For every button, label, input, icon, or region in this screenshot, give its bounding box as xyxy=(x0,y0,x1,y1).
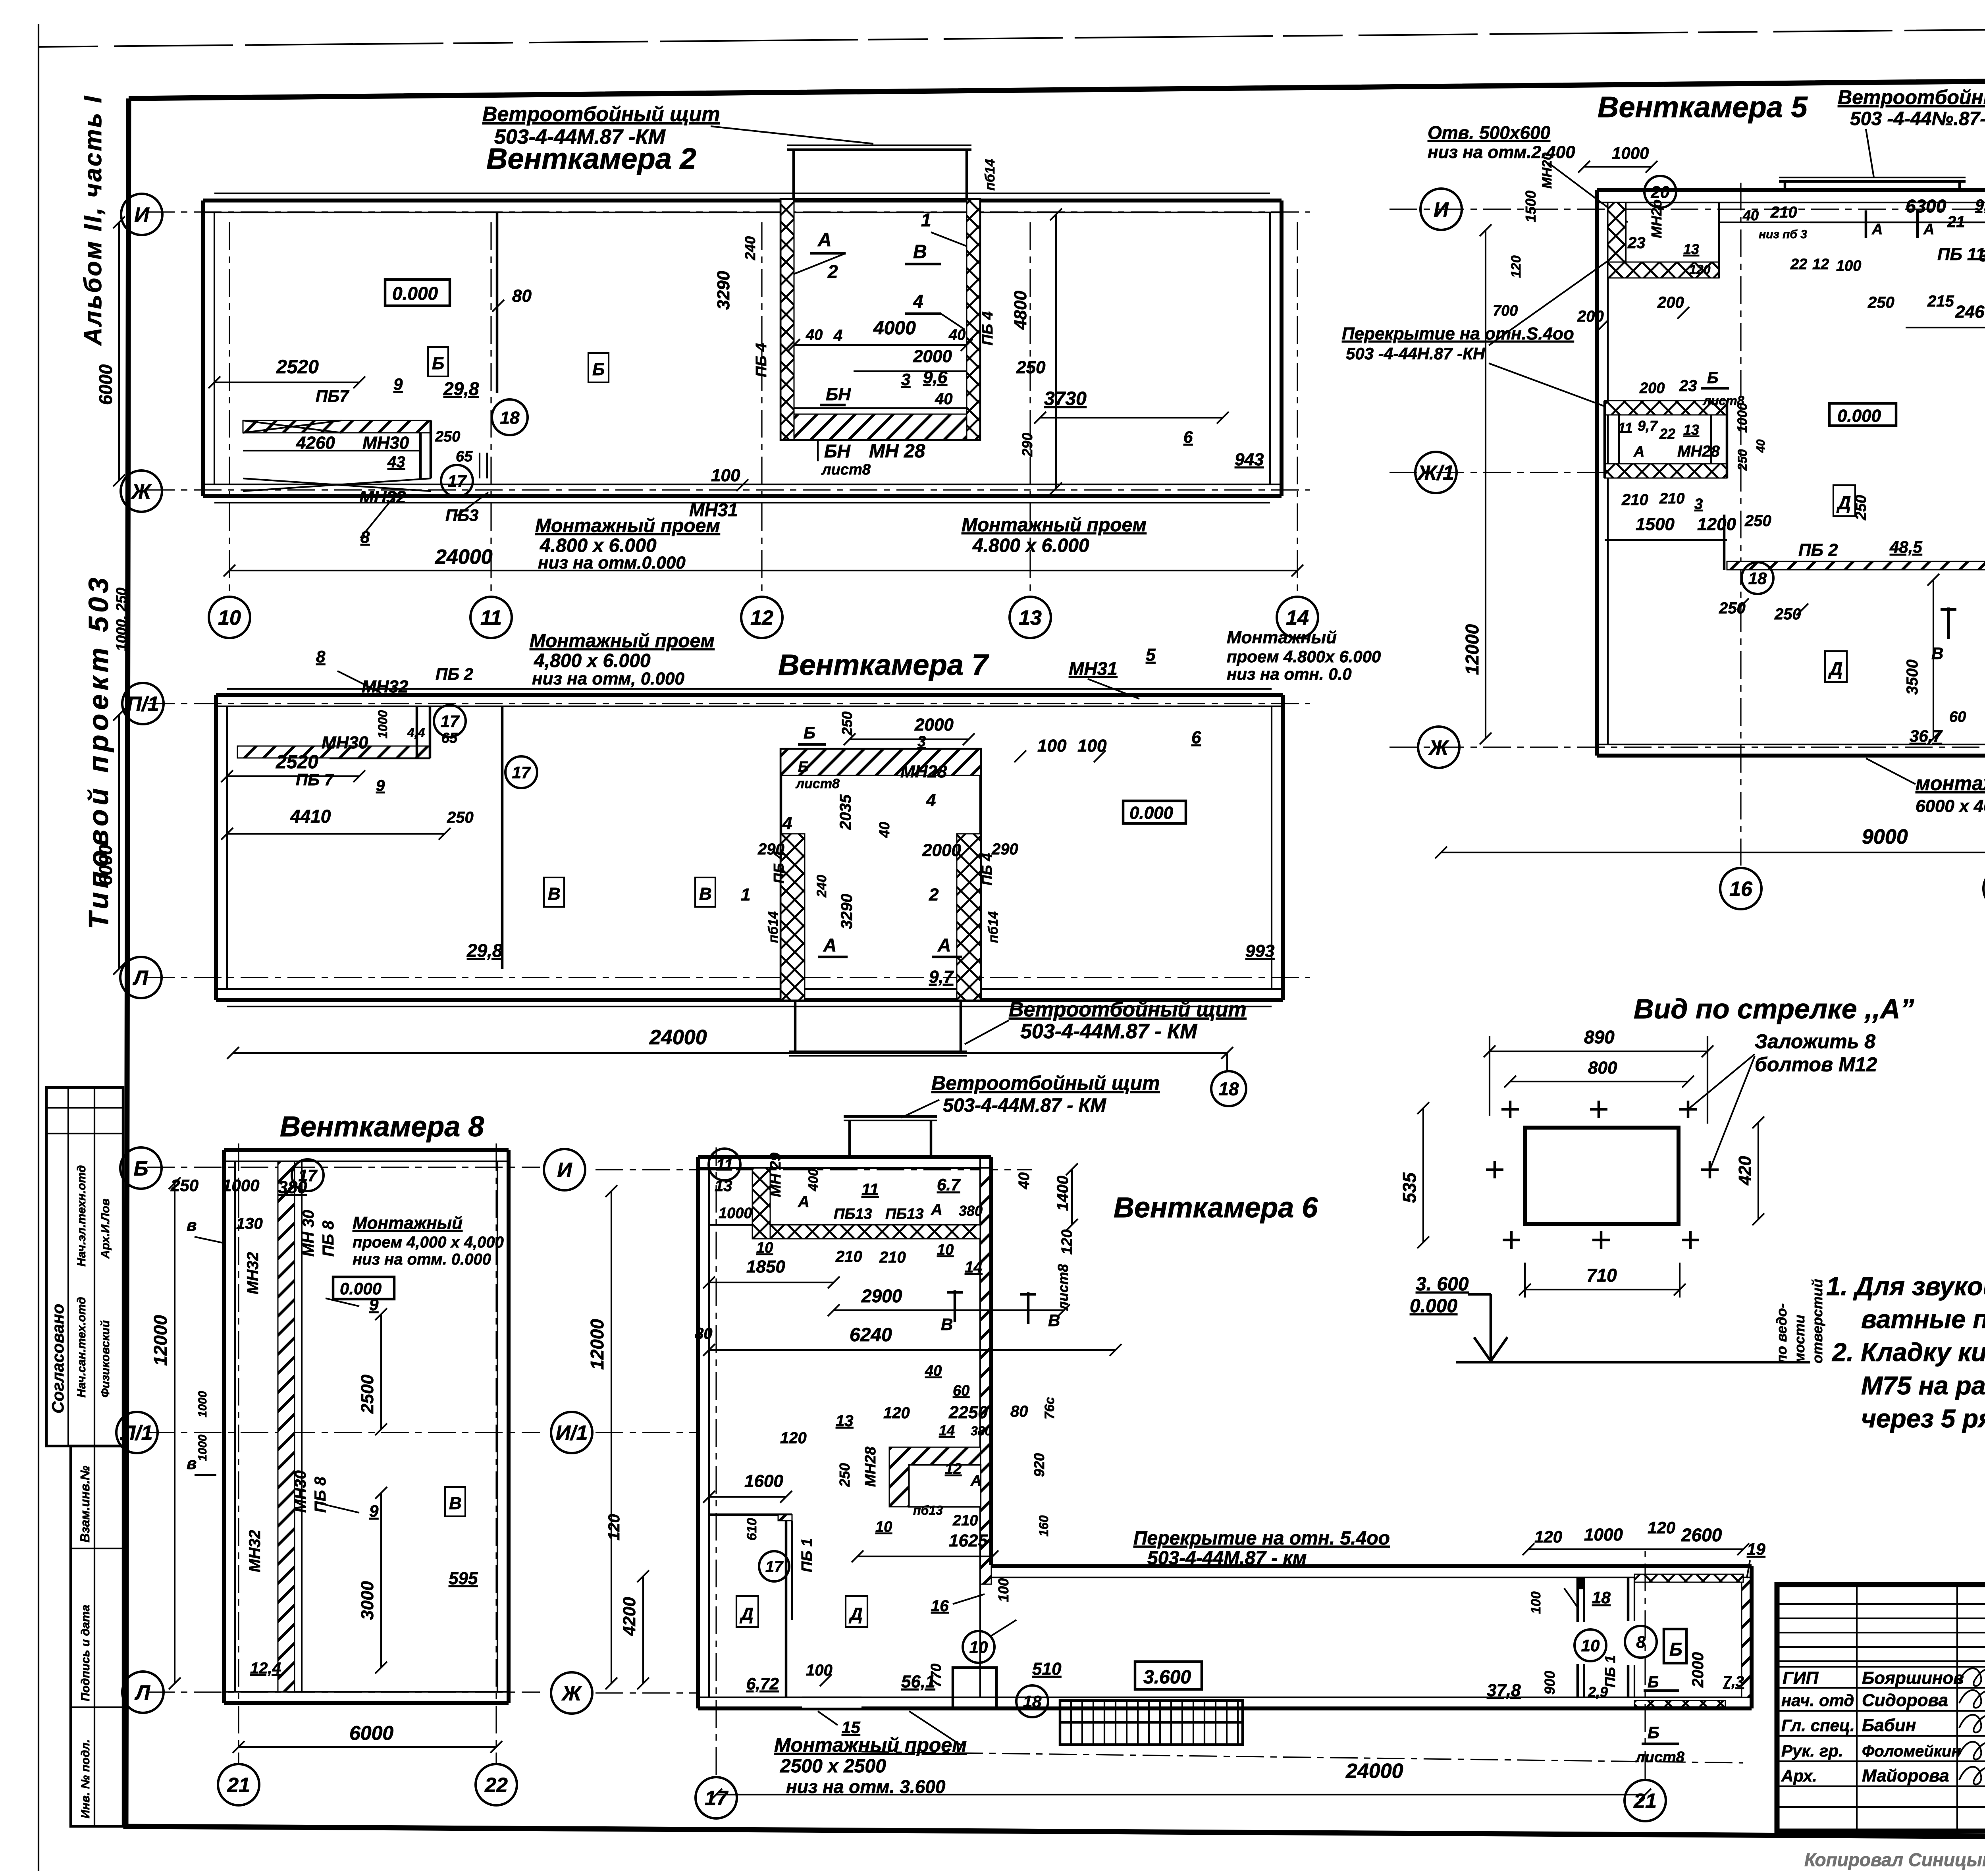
svg-text:250: 250 xyxy=(435,428,460,445)
svg-text:Д: Д xyxy=(1828,658,1842,679)
svg-text:Л: Л xyxy=(132,967,148,990)
svg-text:4,800 х 6.000: 4,800 х 6.000 xyxy=(534,650,651,671)
svg-text:0.000: 0.000 xyxy=(392,283,438,304)
svg-text:1: 1 xyxy=(921,210,931,230)
svg-text:МН30: МН30 xyxy=(292,1470,309,1513)
vk6 24000 dim xyxy=(716,1794,1645,1795)
svg-text:Бабин: Бабин xyxy=(1862,1716,1916,1735)
svg-text:ПБ 4: ПБ 4 xyxy=(753,343,770,377)
svg-text:2. Кладку кирпичных перегоро: 2. Кладку кирпичных перегородок вести из… xyxy=(1831,1338,1985,1367)
svg-text:120: 120 xyxy=(1689,262,1711,277)
vk2 24000 dim xyxy=(229,570,1297,571)
svg-text:37,8: 37,8 xyxy=(1487,1681,1521,1700)
svg-text:250: 250 xyxy=(1867,294,1894,311)
svg-text:1600: 1600 xyxy=(744,1471,783,1491)
svg-text:отверстий: отверстий xyxy=(1809,1279,1825,1363)
svg-text:ПБ 4: ПБ 4 xyxy=(979,311,996,345)
svg-text:6000: 6000 xyxy=(95,364,116,405)
svg-text:11: 11 xyxy=(1618,420,1632,436)
detail dim 420 xyxy=(1758,1122,1759,1219)
svg-text:12000: 12000 xyxy=(587,1319,607,1370)
svg-text:4,4: 4,4 xyxy=(407,725,425,740)
svg-text:Б: Б xyxy=(1648,1723,1659,1742)
svg-text:100: 100 xyxy=(995,1578,1012,1602)
vk8 axis lines xyxy=(147,1166,540,1168)
svg-text:120: 120 xyxy=(1648,1518,1675,1537)
svg-text:43: 43 xyxy=(387,453,405,471)
svg-text:4200: 4200 xyxy=(620,1597,639,1636)
svg-text:Сидорова: Сидорова xyxy=(1862,1691,1948,1710)
vk7 circle refs xyxy=(434,705,466,737)
svg-text:80: 80 xyxy=(512,286,532,306)
vk8 vertical axes xyxy=(238,1143,239,1763)
stamp column group 1 xyxy=(46,1087,123,1446)
svg-text:И: И xyxy=(557,1159,572,1182)
title block frame xyxy=(1777,1585,1985,1831)
svg-text:Перекрытие на отн.S.4оо: Перекрытие на отн.S.4оо xyxy=(1342,324,1574,343)
svg-text:7,3: 7,3 xyxy=(1723,1674,1744,1690)
svg-text:1000: 1000 xyxy=(719,1205,752,1222)
svg-text:6000: 6000 xyxy=(95,844,116,885)
svg-text:ПБ7: ПБ7 xyxy=(316,387,349,405)
svg-text:100: 100 xyxy=(1528,1591,1544,1614)
svg-text:8: 8 xyxy=(1636,1633,1646,1651)
svg-text:Ветроотбойный щит: Ветроотбойный щит xyxy=(931,1072,1160,1094)
svg-text:ватные плиты /ГОСТ 9573-82 ): ватные плиты /ГОСТ 9573-82 ) толщиной 60… xyxy=(1861,1305,1985,1334)
vk7 axis line P1 xyxy=(147,703,1310,704)
vk5 top-left room xyxy=(1608,202,1626,278)
svg-text:9: 9 xyxy=(393,375,403,393)
svg-text:100: 100 xyxy=(1037,736,1067,756)
svg-text:низ на отм.0.000: низ на отм.0.000 xyxy=(538,553,686,573)
svg-text:250: 250 xyxy=(1735,449,1750,471)
vk7 room letters xyxy=(544,877,564,907)
vk7 24000 dim xyxy=(233,1052,1227,1054)
svg-text:29,8: 29,8 xyxy=(466,940,503,961)
vk2 partition xyxy=(496,212,499,393)
vk7 outer walls xyxy=(216,693,1283,697)
svg-text:14: 14 xyxy=(939,1422,955,1438)
svg-text:11: 11 xyxy=(480,607,502,630)
vk2 axis line Zh1 xyxy=(147,489,1310,490)
svg-text:160: 160 xyxy=(1037,1515,1051,1537)
svg-text:ПБ 2: ПБ 2 xyxy=(1798,540,1838,560)
title block left grid xyxy=(1777,1603,1985,1605)
svg-text:210: 210 xyxy=(1621,491,1648,509)
svg-text:10: 10 xyxy=(218,607,241,630)
svg-text:215: 215 xyxy=(1927,293,1954,310)
svg-text:Подпись и дата: Подпись и дата xyxy=(79,1605,92,1701)
svg-text:23: 23 xyxy=(1627,234,1646,252)
svg-text:ПБ 2: ПБ 2 xyxy=(436,665,473,683)
sheet outer trim line left xyxy=(38,24,39,1871)
vk2 room X bracing xyxy=(243,478,431,491)
svg-text:1. Для звукоизоляции вентка: 1. Для звукоизоляции венткамер использую… xyxy=(1826,1272,1985,1301)
svg-text:13: 13 xyxy=(715,1177,732,1195)
svg-text:И/1: И/1 xyxy=(556,1422,588,1445)
detail rect xyxy=(1525,1128,1679,1224)
svg-text:мости: мости xyxy=(1791,1315,1808,1363)
svg-text:503 -4-44Н.87 -КН: 503 -4-44Н.87 -КН xyxy=(1346,344,1486,363)
svg-text:9000: 9000 xyxy=(1862,825,1908,848)
svg-text:17: 17 xyxy=(299,1166,318,1185)
svg-text:200: 200 xyxy=(1577,308,1604,325)
svg-text:10: 10 xyxy=(937,1242,954,1258)
vk7 axis circle P1 xyxy=(122,683,164,724)
svg-text:200: 200 xyxy=(1639,380,1665,397)
svg-text:503-4-44М.87 - км: 503-4-44М.87 - км xyxy=(1147,1548,1307,1569)
svg-text:1200: 1200 xyxy=(1697,515,1736,534)
svg-text:1000: 1000 xyxy=(376,710,390,738)
vk6 level box 3600 xyxy=(1135,1662,1202,1689)
vk5 circle 20 xyxy=(1644,176,1676,208)
vk5 axis circles xyxy=(1420,189,1462,230)
svg-text:2900: 2900 xyxy=(861,1286,902,1306)
vk6 B arrows xyxy=(954,1290,956,1322)
svg-text:40: 40 xyxy=(876,822,892,838)
vk5 second room xyxy=(1605,401,1727,415)
svg-text:2: 2 xyxy=(827,261,838,282)
svg-text:12,4: 12,4 xyxy=(250,1660,281,1677)
vk7 wind shield below xyxy=(794,1000,797,1052)
detail plus marks xyxy=(1501,1108,1519,1111)
vk5 outer walls xyxy=(1597,188,1985,192)
svg-text:60: 60 xyxy=(1949,709,1966,725)
vk8 12000 dim xyxy=(174,1183,175,1683)
svg-text:503-4-44М.87 - КМ: 503-4-44М.87 - КМ xyxy=(1020,1020,1198,1043)
svg-text:1: 1 xyxy=(741,885,750,904)
svg-text:10: 10 xyxy=(1581,1636,1600,1655)
svg-text:12000: 12000 xyxy=(1462,624,1482,675)
svg-text:Монтажный проем: Монтажный проем xyxy=(530,630,715,652)
svg-text:Нач.эл.техн.отд: Нач.эл.техн.отд xyxy=(75,1165,88,1267)
svg-text:Отв. 500х600: Отв. 500х600 xyxy=(1428,122,1551,143)
vk7 level mark xyxy=(1123,801,1186,823)
svg-text:1400: 1400 xyxy=(1054,1176,1072,1211)
svg-text:920: 920 xyxy=(1031,1453,1047,1477)
vk7 axis circle L xyxy=(120,957,162,998)
svg-text:Нач.сан.тех.отд: Нач.сан.тех.отд xyxy=(75,1297,88,1398)
svg-text:3730: 3730 xyxy=(1044,388,1087,409)
svg-text:40: 40 xyxy=(1742,207,1759,224)
vk6 top-left room xyxy=(709,1224,980,1226)
svg-text:Ж: Ж xyxy=(561,1682,582,1705)
vk2 vertical grid axes xyxy=(229,222,230,596)
svg-text:пб 3: пб 3 xyxy=(1783,228,1807,241)
vk7 left 6000 dim xyxy=(118,715,120,969)
svg-text:лист8: лист8 xyxy=(1055,1264,1071,1311)
svg-text:1000: 1000 xyxy=(1612,144,1649,162)
svg-text:А: А xyxy=(823,935,836,955)
svg-text:710: 710 xyxy=(1586,1265,1617,1286)
vk7 wall panel lines xyxy=(227,688,1272,690)
svg-text:пб14: пб14 xyxy=(766,911,781,943)
svg-text:3: 3 xyxy=(1694,496,1703,513)
vk2 wall panel lines xyxy=(214,193,1270,194)
svg-text:2520: 2520 xyxy=(276,357,319,378)
svg-text:120: 120 xyxy=(1534,1527,1562,1546)
svg-text:ПБ 1: ПБ 1 xyxy=(1602,1655,1618,1687)
svg-text:2460: 2460 xyxy=(1955,302,1985,322)
svg-text:В: В xyxy=(699,884,712,904)
svg-text:ГИП: ГИП xyxy=(1783,1668,1819,1688)
svg-text:ПБ 1: ПБ 1 xyxy=(799,1538,815,1572)
svg-text:80: 80 xyxy=(1010,1403,1028,1420)
vk6 vertical part walls xyxy=(698,1155,991,1159)
svg-text:9,4: 9,4 xyxy=(1975,197,1985,214)
vk6 axis dash bottom xyxy=(861,1752,1743,1763)
svg-text:Венткамера 7: Венткамера 7 xyxy=(778,648,989,681)
svg-text:6240: 6240 xyxy=(850,1325,892,1346)
svg-text:лист8: лист8 xyxy=(821,461,871,478)
vk7 small room top-left xyxy=(330,757,430,760)
vk7 axis line L xyxy=(147,977,1310,978)
svg-text:250: 250 xyxy=(1744,512,1771,530)
svg-text:16: 16 xyxy=(1729,878,1753,901)
svg-text:130: 130 xyxy=(236,1215,263,1232)
svg-text:210: 210 xyxy=(1659,490,1684,507)
svg-text:И: И xyxy=(134,204,150,227)
svg-text:Рук. гр.: Рук. гр. xyxy=(1781,1741,1843,1760)
svg-text:Майорова: Майорова xyxy=(1862,1766,1949,1785)
svg-text:через 5 рядов кладки.: через 5 рядов кладки. xyxy=(1861,1404,1985,1433)
svg-text:14: 14 xyxy=(1286,607,1309,630)
svg-text:120: 120 xyxy=(780,1429,807,1447)
detail ground line xyxy=(1456,1361,1810,1364)
svg-text:100: 100 xyxy=(1836,258,1861,274)
vk2 room letter V1 xyxy=(428,347,448,376)
svg-text:Б: Б xyxy=(134,1157,148,1180)
svg-text:943: 943 xyxy=(1235,450,1264,469)
svg-text:2250: 2250 xyxy=(948,1403,988,1422)
svg-text:БН: БН xyxy=(824,441,851,461)
svg-text:МН28: МН28 xyxy=(900,762,947,781)
vk2 room letter V2 xyxy=(588,353,609,382)
svg-text:510: 510 xyxy=(1032,1659,1062,1679)
svg-text:3.600: 3.600 xyxy=(1143,1667,1191,1688)
svg-text:80: 80 xyxy=(695,1325,713,1342)
svg-text:А: А xyxy=(798,1193,809,1211)
vk2 bottom axis circles xyxy=(209,597,250,638)
svg-text:3500: 3500 xyxy=(1904,659,1921,695)
svg-text:МН20: МН20 xyxy=(1540,152,1555,189)
svg-text:595: 595 xyxy=(449,1569,478,1588)
svg-text:МН2о: МН2о xyxy=(1648,199,1665,238)
svg-text:по ведо-: по ведо- xyxy=(1773,1303,1790,1363)
vk6 inner partition left xyxy=(709,1514,792,1516)
svg-text:1625: 1625 xyxy=(949,1531,988,1550)
detail dim 535 xyxy=(1422,1108,1424,1242)
svg-text:2000: 2000 xyxy=(914,715,954,735)
svg-text:Б: Б xyxy=(1669,1639,1682,1660)
svg-text:380: 380 xyxy=(959,1203,983,1219)
svg-text:6: 6 xyxy=(1183,428,1193,446)
svg-text:2000: 2000 xyxy=(1689,1652,1707,1688)
svg-text:В: В xyxy=(1048,1311,1060,1330)
vk6 bottom opening 15 xyxy=(802,1697,861,1708)
svg-text:Б: Б xyxy=(804,723,815,742)
vk2 axis circle Zh xyxy=(121,470,162,512)
svg-text:290: 290 xyxy=(1019,433,1035,457)
vk6 12000 dim xyxy=(611,1191,612,1683)
svg-text:0.000: 0.000 xyxy=(340,1279,382,1298)
vk5 bottom circles xyxy=(1720,868,1761,909)
svg-text:6: 6 xyxy=(1191,728,1201,747)
svg-text:22: 22 xyxy=(1790,256,1807,273)
svg-text:3: 3 xyxy=(917,733,926,750)
svg-text:9,7: 9,7 xyxy=(1638,418,1658,434)
svg-text:1000: 1000 xyxy=(196,1391,209,1417)
svg-text:Перекрытие на отн. 5.4оо: Перекрытие на отн. 5.4оо xyxy=(1133,1528,1390,1549)
svg-text:250: 250 xyxy=(170,1176,198,1195)
vk8 room letter xyxy=(445,1487,465,1516)
svg-text:2000: 2000 xyxy=(913,347,952,366)
svg-text:250: 250 xyxy=(1016,358,1046,377)
vk8 6000 dim xyxy=(239,1746,496,1748)
vk2 axis circle I xyxy=(121,194,162,235)
svg-text:Арх.И.Лов: Арх.И.Лов xyxy=(99,1199,112,1259)
svg-text:4: 4 xyxy=(913,291,923,312)
svg-text:240: 240 xyxy=(814,875,829,898)
svg-text:1000: 1000 xyxy=(1584,1525,1623,1544)
sheet outer trim line top (dashed) xyxy=(39,25,1985,47)
svg-text:13: 13 xyxy=(836,1412,854,1430)
svg-text:1000: 1000 xyxy=(196,1434,209,1461)
svg-text:10: 10 xyxy=(875,1519,892,1535)
svg-text:Венткамера 6: Венткамера 6 xyxy=(1114,1192,1318,1224)
svg-text:М75 на растворе М50 с арми: М75 на растворе М50 с армированием 2Ф6АI xyxy=(1861,1371,1985,1400)
svg-text:13: 13 xyxy=(1019,607,1042,630)
svg-text:40: 40 xyxy=(925,1363,942,1379)
vk6 circle 10 xyxy=(963,1631,994,1663)
svg-text:Согласовано: Согласовано xyxy=(48,1304,67,1413)
vk2 left 6000 dim xyxy=(118,222,120,480)
vk6 axis lines left xyxy=(595,1169,1032,1170)
svg-text:6,72: 6,72 xyxy=(746,1674,779,1693)
svg-text:24000: 24000 xyxy=(1345,1760,1403,1783)
svg-text:низ на отн. 0.0: низ на отн. 0.0 xyxy=(1227,665,1352,683)
svg-text:Б: Б xyxy=(592,360,605,379)
svg-text:Альбом II, часть I: Альбом II, часть I xyxy=(79,94,107,346)
svg-text:1000: 1000 xyxy=(1735,403,1750,433)
svg-text:1000, 250: 1000, 250 xyxy=(113,588,129,651)
svg-text:380: 380 xyxy=(971,1424,992,1438)
svg-text:36,7: 36,7 xyxy=(1910,727,1943,745)
svg-text:610: 610 xyxy=(744,1518,759,1541)
svg-text:993: 993 xyxy=(1245,941,1274,961)
svg-text:210: 210 xyxy=(952,1512,978,1529)
svg-text:ПБ 8: ПБ 8 xyxy=(312,1477,329,1513)
detail dim 890 xyxy=(1490,1051,1707,1052)
svg-text:Ветроотбойный щит: Ветроотбойный щит xyxy=(1009,998,1247,1021)
svg-text:Арх.: Арх. xyxy=(1781,1766,1817,1785)
svg-text:В: В xyxy=(548,884,561,904)
svg-text:120: 120 xyxy=(1509,255,1524,278)
vk8 level mark xyxy=(333,1277,394,1299)
svg-text:ПБ13: ПБ13 xyxy=(885,1206,924,1222)
svg-text:Ж: Ж xyxy=(1428,737,1449,760)
svg-text:ПБ 4: ПБ 4 xyxy=(771,851,787,883)
svg-text:МН 29: МН 29 xyxy=(767,1153,784,1197)
svg-text:Б: Б xyxy=(1648,1674,1659,1691)
svg-text:2000: 2000 xyxy=(922,841,961,860)
svg-text:А: А xyxy=(931,1201,942,1219)
svg-text:20: 20 xyxy=(1651,183,1670,201)
vk6 room letters D xyxy=(736,1596,758,1627)
svg-text:240: 240 xyxy=(742,236,758,260)
vk5 axis lines xyxy=(1389,208,1985,210)
svg-text:лист8: лист8 xyxy=(795,776,840,791)
svg-text:А: А xyxy=(817,229,832,251)
svg-text:19: 19 xyxy=(1747,1540,1765,1558)
svg-text:17: 17 xyxy=(765,1558,784,1575)
svg-text:низ на отм. 0.000: низ на отм. 0.000 xyxy=(353,1251,491,1268)
svg-text:0.000: 0.000 xyxy=(1129,803,1174,823)
svg-text:18: 18 xyxy=(1592,1588,1611,1607)
svg-text:4: 4 xyxy=(833,327,842,344)
vk8 outer walls xyxy=(224,1148,509,1152)
svg-text:40: 40 xyxy=(935,390,953,408)
svg-text:Б: Б xyxy=(798,759,809,775)
svg-text:21: 21 xyxy=(1633,1790,1657,1813)
svg-text:4.800 х 6.000: 4.800 х 6.000 xyxy=(972,535,1089,556)
svg-text:12: 12 xyxy=(1812,256,1829,273)
svg-text:Взам.инв.№: Взам.инв.№ xyxy=(78,1465,92,1542)
vk2 small room bottom-left xyxy=(243,420,431,433)
svg-text:4: 4 xyxy=(926,791,936,810)
svg-text:1500: 1500 xyxy=(1636,515,1675,534)
svg-text:8: 8 xyxy=(316,647,326,666)
svg-text:Б: Б xyxy=(432,354,444,373)
svg-text:проем 4,000 х 4,000: проем 4,000 х 4,000 xyxy=(353,1234,504,1251)
vk8 axis circles left xyxy=(120,1147,162,1189)
svg-text:3290: 3290 xyxy=(838,894,856,929)
vk6 arm hatched segment xyxy=(1634,1574,1743,1582)
detail dim 800 xyxy=(1510,1081,1688,1082)
svg-text:Ветроотбойный щит: Ветроотбойный щит xyxy=(482,103,720,126)
svg-text:24000: 24000 xyxy=(435,546,493,569)
svg-text:МН32: МН32 xyxy=(244,1252,262,1294)
svg-text:ПБ 7: ПБ 7 xyxy=(296,770,334,789)
svg-text:48,5: 48,5 xyxy=(1889,538,1922,556)
svg-text:Д: Д xyxy=(739,1604,754,1624)
svg-text:400: 400 xyxy=(806,1168,821,1192)
svg-text:низ на отм, 0.000: низ на отм, 0.000 xyxy=(532,669,684,688)
svg-text:12: 12 xyxy=(945,1461,962,1477)
svg-text:800: 800 xyxy=(1588,1058,1617,1078)
vk7 axis circle 18 xyxy=(1211,1071,1246,1106)
svg-text:23: 23 xyxy=(1679,377,1697,395)
svg-text:1500: 1500 xyxy=(1522,191,1539,222)
svg-text:ПБ3: ПБ3 xyxy=(445,506,478,524)
svg-text:Д: Д xyxy=(848,1604,863,1624)
svg-text:503-4-44М.87 - КМ: 503-4-44М.87 - КМ xyxy=(943,1095,1106,1116)
vk6 stair strip xyxy=(1060,1701,1243,1745)
vk5 B arrows bottom xyxy=(1947,607,1950,639)
svg-text:пб14: пб14 xyxy=(983,159,998,191)
svg-text:250: 250 xyxy=(836,1463,853,1487)
svg-text:Заложить 8: Заложить 8 xyxy=(1755,1030,1875,1053)
vk5 A arrows top xyxy=(1865,210,1867,238)
vk5 level mark xyxy=(1829,403,1896,426)
svg-text:Ж: Ж xyxy=(131,480,152,503)
svg-text:2600: 2600 xyxy=(1681,1525,1722,1545)
svg-text:в: в xyxy=(187,1216,197,1234)
svg-text:МН31: МН31 xyxy=(1069,658,1118,679)
svg-text:Физиковский: Физиковский xyxy=(99,1320,112,1398)
svg-text:65: 65 xyxy=(456,448,473,465)
svg-text:П/1: П/1 xyxy=(127,693,159,716)
